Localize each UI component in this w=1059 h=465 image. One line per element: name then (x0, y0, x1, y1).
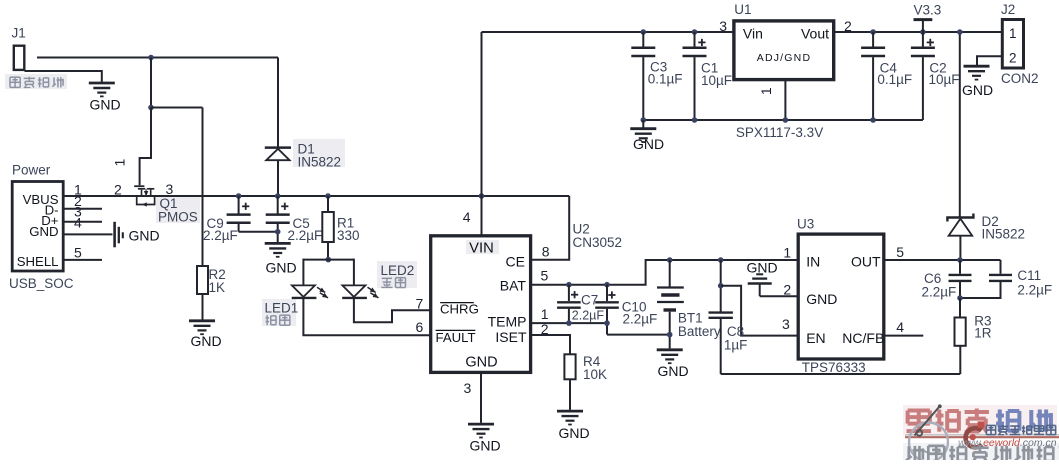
label 红色 (381, 278, 405, 288)
svg-text:3: 3 (719, 18, 727, 34)
watermark 培训 blue (996, 410, 1051, 432)
svg-text:ADJ/GND: ADJ/GND (757, 52, 812, 64)
wire D+ stub (64, 221, 103, 223)
wire top rail right (834, 31, 1002, 33)
svg-text:4: 4 (463, 209, 471, 225)
label C8 (727, 324, 744, 339)
svg-text:2: 2 (1009, 51, 1017, 66)
svg-text:J1: J1 (12, 26, 26, 41)
wire gate lead (140, 108, 151, 186)
svg-text:GND: GND (90, 97, 121, 113)
label C8 value (724, 338, 748, 353)
svg-text:Power: Power (12, 163, 51, 178)
svg-text:CE: CE (506, 253, 525, 269)
watermark 易迪拓 red (907, 409, 989, 432)
label U1 (734, 2, 751, 17)
pin 3 (74, 204, 82, 220)
svg-text:USB_SOC: USB_SOC (9, 276, 74, 291)
label C5 value (288, 228, 323, 243)
label IN5822 (298, 155, 342, 170)
node LED split (326, 257, 332, 263)
label C1 (701, 61, 718, 76)
label Battery (678, 324, 721, 339)
node C5 bottom (275, 229, 281, 235)
resistor R3 (955, 298, 966, 346)
svg-text:BAT: BAT (500, 278, 527, 294)
label SPX1117-3.3V (736, 125, 823, 140)
svg-text:V3.3: V3.3 (914, 3, 942, 18)
diode D1 (265, 58, 291, 197)
label R1 value (337, 228, 360, 243)
label C11 value (1017, 283, 1052, 298)
wire C9 bottom to C5 bottom (239, 231, 278, 233)
label C5 (293, 216, 310, 231)
node C8 EN tee (718, 283, 724, 289)
connector USB_SOC (12, 182, 63, 272)
svg-text:Vin: Vin (743, 26, 763, 42)
svg-text:0.1µF: 0.1µF (877, 72, 912, 87)
node battery bottom (667, 332, 673, 338)
node C6 bottom (957, 295, 963, 301)
capacitor C5 (266, 196, 290, 242)
label C3 (650, 60, 667, 75)
label J2 (1001, 2, 1015, 17)
svg-text:IN5822: IN5822 (298, 155, 342, 170)
pin 4 of U2 (463, 209, 471, 225)
svg-text:10K: 10K (583, 367, 607, 382)
pin 2 (74, 193, 82, 209)
label R4 value (583, 367, 607, 382)
wire to R2 (151, 108, 203, 267)
label C6 value (922, 285, 957, 300)
pin 5 (74, 245, 82, 261)
wire LED1 cathode to pin 6 (302, 298, 430, 335)
pin 1 of Q1 (rotated) (112, 158, 128, 166)
node C1 top (692, 29, 698, 35)
capacitor C1 (683, 32, 707, 120)
ground top rail (630, 120, 664, 152)
node rail left (641, 117, 647, 123)
label C9 value (203, 228, 238, 243)
svg-text:GND: GND (266, 260, 297, 276)
label LED2 (381, 263, 415, 278)
svg-text:TEMP: TEMP (488, 314, 527, 330)
svg-text:1: 1 (112, 158, 128, 166)
wire U1 pin1 (784, 80, 786, 120)
svg-text:2.2µF: 2.2µF (288, 228, 323, 243)
svg-text:10µF: 10µF (929, 72, 960, 87)
pin 1 of U2 (541, 306, 549, 322)
wire CE riser (530, 196, 569, 260)
svg-text:1: 1 (783, 244, 791, 260)
svg-text:GND: GND (559, 425, 590, 441)
label C7 value (572, 309, 605, 323)
capacitor C7 (557, 285, 581, 323)
node C7 bottom (566, 320, 572, 326)
svg-text:1: 1 (758, 87, 774, 95)
power V3.3 (914, 3, 942, 33)
svg-text:8: 8 (542, 244, 550, 260)
svg-text:NC/FB: NC/FB (842, 330, 884, 346)
wire J1 top to D1 (37, 57, 278, 59)
wire C10 bottom to battery gnd (607, 334, 670, 336)
label Q1 (160, 196, 178, 211)
svg-text:PMOS: PMOS (158, 209, 198, 224)
watermark 电子工程世界 (986, 425, 1055, 435)
label CN3052 (573, 235, 623, 250)
label C2 value (929, 72, 960, 87)
svg-text:2.2µF: 2.2µF (1017, 283, 1052, 298)
label R4 (583, 354, 601, 369)
wire main VBUS rail (64, 195, 570, 197)
capacitor C8 (709, 313, 733, 374)
svg-text:5: 5 (896, 244, 904, 260)
wire top rail left (482, 31, 735, 33)
svg-text:1µF: 1µF (724, 338, 748, 353)
watermark underline gray (905, 434, 1059, 436)
capacitor C11 (960, 260, 1012, 298)
svg-text:GND: GND (191, 333, 222, 349)
wire LED2 cathode to pin 7 (354, 298, 430, 322)
svg-text:C7: C7 (581, 293, 598, 308)
node battery top (667, 257, 673, 263)
label C3 value (648, 72, 683, 87)
label USB_SOC (9, 276, 74, 291)
svg-text:3: 3 (166, 181, 174, 197)
transistor Q1 (134, 186, 154, 206)
label C4 value (877, 72, 912, 87)
capacitor C6 (949, 260, 972, 298)
svg-text:U1: U1 (734, 2, 751, 17)
wire VIN riser (481, 32, 483, 236)
pin 1 of U1 (rotated) (758, 87, 774, 95)
node C10 tee (604, 320, 610, 326)
svg-text:1: 1 (1009, 26, 1017, 41)
wire BAT to IN (530, 260, 798, 285)
label C10 (622, 300, 647, 315)
svg-text:IN: IN (806, 253, 820, 269)
capacitor C9 (227, 196, 251, 232)
svg-text:OUT: OUT (851, 253, 881, 269)
node C4 top (870, 29, 876, 35)
svg-text:0.1µF: 0.1µF (648, 72, 683, 87)
svg-text:TPS76333: TPS76333 (802, 360, 866, 375)
svg-text:SHELL: SHELL (17, 254, 59, 269)
pin 5 of U2 (541, 268, 549, 284)
svg-text:GND: GND (129, 228, 160, 244)
svg-text:J2: J2 (1001, 2, 1015, 17)
ground U2 (468, 424, 501, 453)
connector J2 (1002, 20, 1023, 69)
wire OUT (884, 259, 1001, 261)
node C2 top (920, 29, 926, 35)
svg-text:2: 2 (541, 321, 549, 337)
ground J1 (89, 83, 121, 113)
svg-text:GND: GND (962, 82, 993, 98)
label C1 value (701, 73, 732, 88)
pin 2 of U2 (541, 321, 549, 337)
label C2 (929, 61, 946, 76)
ground R4 (557, 411, 590, 441)
watermark 射频和天线设计专家 (906, 445, 1059, 462)
label CON2 (1001, 71, 1039, 86)
watermark www.eeworld.com.cn (958, 437, 1057, 449)
pin 1 (74, 182, 82, 198)
wire SHELL stub (64, 259, 103, 261)
pin 3 of U3 (782, 316, 790, 332)
node VIN riser (479, 193, 485, 199)
svg-text:2.2µF: 2.2µF (623, 312, 658, 327)
wire gate branch vertical (150, 58, 152, 108)
wire TEMP (532, 322, 608, 324)
node R1 top (325, 193, 331, 199)
label C4 (880, 61, 898, 76)
node gate tee (148, 105, 154, 111)
label U2 (573, 221, 590, 236)
ground R2 (189, 321, 222, 349)
svg-text:SPX1117-3.3V: SPX1117-3.3V (736, 125, 823, 140)
ground U3 pin2 (747, 260, 778, 297)
capacitor C4 (861, 32, 885, 120)
label R3 (974, 314, 991, 329)
node J1 wire / gate branch (148, 55, 154, 61)
svg-text:330: 330 (337, 228, 360, 243)
pin 5 of U3 (896, 244, 904, 260)
wire LED rail (303, 259, 354, 286)
resistor R1 (322, 196, 334, 260)
svg-text:IN5822: IN5822 (982, 226, 1026, 241)
label U3 (797, 216, 814, 231)
label C11 (1017, 268, 1041, 283)
svg-text:2.2µF: 2.2µF (922, 285, 957, 300)
capacitor C10 (595, 285, 619, 335)
pin 1 of U3 (783, 244, 791, 260)
label LED1 (265, 301, 299, 316)
capacitor C2 (911, 32, 935, 120)
node C9 top (236, 193, 242, 199)
connector J1 (12, 26, 26, 70)
node C5 top (275, 193, 281, 199)
capacitor C3 (631, 32, 655, 120)
label D2 (982, 214, 999, 229)
watermark underline red (905, 436, 1059, 438)
node C3 top (641, 29, 647, 35)
pin 2 of U3 (783, 281, 791, 297)
wire EN loop (721, 286, 798, 336)
diode D2 (947, 214, 973, 261)
watermark circle logo (909, 404, 948, 461)
svg-text:10µF: 10µF (701, 73, 732, 88)
label R3 value (974, 326, 992, 341)
pin 3 of Q1 (166, 181, 174, 197)
svg-text:VIN: VIN (469, 240, 494, 256)
svg-text:GND: GND (747, 260, 778, 276)
svg-text:3: 3 (782, 316, 790, 332)
svg-text:1K: 1K (209, 280, 226, 295)
pin 8 (542, 244, 550, 260)
wire C8 stem (720, 260, 722, 312)
svg-text:5: 5 (541, 268, 549, 284)
resistor R4 (564, 354, 575, 410)
op-amp U2 CN3052 (431, 236, 531, 373)
svg-text:EN: EN (806, 330, 825, 346)
svg-text:7: 7 (416, 295, 424, 311)
LED LED1 (292, 285, 328, 298)
wire D2 riser (959, 32, 961, 217)
wire U3 pin2 (760, 295, 798, 297)
label C6 (924, 271, 941, 286)
battery BT1 (657, 260, 684, 348)
label Power (12, 163, 51, 178)
pin 3 of U1 (719, 18, 727, 34)
svg-text:6: 6 (416, 319, 424, 335)
watermark eeworld d logo (966, 421, 985, 447)
node rail U1 pin1 (783, 117, 789, 123)
node C8 branch on IN wire (718, 257, 724, 263)
wire D- stub (64, 208, 103, 210)
label PMOS (158, 209, 198, 224)
label TPS76333 (802, 360, 866, 375)
label 电源接头 (10, 77, 63, 88)
svg-text:2: 2 (783, 281, 791, 297)
svg-text:LED1: LED1 (265, 301, 299, 316)
svg-text:1: 1 (541, 306, 549, 322)
node rail C4 (870, 117, 876, 123)
svg-text:GND: GND (470, 438, 501, 454)
wire NC/FB stub (884, 335, 924, 337)
node rail C1 (692, 117, 698, 123)
svg-text:GND: GND (633, 136, 664, 152)
svg-text:U3: U3 (797, 216, 814, 231)
label D2 IN5822 (982, 226, 1026, 241)
svg-text:ISET: ISET (495, 329, 527, 345)
svg-text:CON2: CON2 (1001, 71, 1039, 86)
pin 6 (416, 319, 424, 335)
svg-text:Battery: Battery (678, 324, 721, 339)
resistor R2 (197, 266, 226, 295)
label C10 value (623, 312, 658, 327)
svg-text:GND: GND (465, 354, 497, 370)
node D2 riser top (957, 29, 963, 35)
wire U2 gnd pin3 (480, 372, 482, 423)
label C7 (581, 293, 598, 308)
ground battery (657, 350, 689, 379)
label R1 (337, 216, 354, 231)
wire J1 bottom to GND (25, 70, 102, 82)
wire bottom rail C8 to R3 (721, 346, 961, 374)
svg-text:4: 4 (896, 319, 904, 335)
label D1 (298, 142, 315, 157)
wire GND pin stub (64, 233, 113, 235)
pin 3 of U2 (464, 380, 472, 396)
wire J2 pin2 to gnd (977, 56, 1002, 65)
wire R2 to gnd (202, 294, 204, 320)
svg-text:FAULT: FAULT (436, 330, 476, 345)
ground J2 (962, 66, 993, 98)
regulator U3 TPS76333 (798, 234, 884, 359)
LED LED2 (342, 285, 378, 298)
svg-text:GND: GND (29, 224, 58, 239)
label background patches (5, 74, 499, 326)
svg-text:C11: C11 (1017, 268, 1041, 283)
label C9 (207, 216, 224, 231)
svg-text:2: 2 (114, 182, 122, 198)
wire ISET to R4 (532, 335, 571, 354)
svg-text:1R: 1R (974, 326, 992, 341)
pin 2 of U1 (844, 18, 852, 34)
regulator U1 SPX1117 (734, 21, 834, 80)
svg-text:5: 5 (74, 245, 82, 261)
node OUT/D2/C6 (957, 257, 963, 263)
svg-text:GND: GND (806, 291, 837, 307)
ground sideways at pin 4 (115, 222, 160, 248)
node C7 top (566, 282, 572, 288)
svg-text:2.2µF: 2.2µF (572, 309, 605, 323)
svg-text:Vout: Vout (801, 26, 829, 42)
node C10 top (604, 282, 610, 288)
wire gnd rail (643, 119, 923, 121)
pin 2 of Q1 (114, 182, 122, 198)
pin 4 (74, 215, 82, 231)
label BT1 (678, 311, 703, 326)
watermark wash (903, 405, 1059, 460)
label 绿色 (265, 315, 289, 325)
svg-text:LED2: LED2 (381, 263, 415, 278)
svg-text:CN3052: CN3052 (573, 235, 623, 250)
ground C5 (265, 243, 297, 275)
pin 4 of U3 (896, 319, 904, 335)
svg-text:3: 3 (464, 380, 472, 396)
pin 7 (416, 295, 424, 311)
svg-text:GND: GND (658, 363, 689, 379)
svg-text:2.2µF: 2.2µF (203, 228, 238, 243)
svg-text:CHRG: CHRG (440, 302, 479, 317)
